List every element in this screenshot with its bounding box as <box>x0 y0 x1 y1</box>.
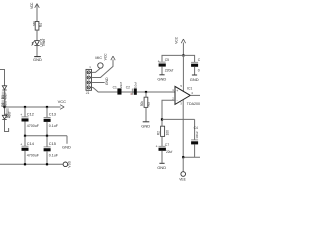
svg-text:+: + <box>176 89 178 93</box>
wire top rail <box>162 55 195 62</box>
junction dot signal line <box>145 91 147 93</box>
svg-text:VCC: VCC <box>104 53 108 61</box>
wire feedback to C4 <box>194 119 196 139</box>
capacitor C15 <box>44 146 51 148</box>
junction dot top rail <box>182 54 184 56</box>
svg-text:GND: GND <box>62 145 71 150</box>
svg-text:C7: C7 <box>165 143 169 147</box>
svg-text:4700uF: 4700uF <box>27 154 40 158</box>
svg-text:C13: C13 <box>49 111 56 116</box>
svg-text:+: + <box>20 113 22 117</box>
wire C13 top <box>46 107 48 117</box>
svg-text:C12: C12 <box>27 111 34 116</box>
terminal VEE <box>181 172 186 177</box>
wire VCC to top rail <box>182 43 184 56</box>
capacitor C6 <box>191 61 198 63</box>
LED LED1 <box>32 41 40 46</box>
ground (LED chain) <box>34 56 41 58</box>
svg-text:VEE: VEE <box>179 178 186 182</box>
junction dot mid rail right <box>46 135 48 137</box>
wire C13 bottom <box>46 122 48 136</box>
junction dot C13 top <box>46 106 48 108</box>
capacitor C13 <box>44 117 51 119</box>
svg-text:C14: C14 <box>27 141 35 146</box>
wire C5 to GND <box>161 67 163 75</box>
wire VCC arrow to J1 pin2 <box>93 60 113 78</box>
diode D1 <box>2 86 6 90</box>
resistor R2 <box>161 126 165 136</box>
wire C7 to GND <box>161 151 163 163</box>
svg-text:C2: C2 <box>126 85 130 89</box>
wire C15 bottom <box>46 151 48 164</box>
svg-text:0.1uF: 0.1uF <box>49 124 59 128</box>
wire C6 to GND <box>194 67 196 75</box>
svg-text:330: 330 <box>32 21 36 26</box>
svg-text:C1: C1 <box>113 85 117 89</box>
svg-text:R3: R3 <box>147 102 151 106</box>
svg-text:MIC: MIC <box>95 56 102 60</box>
wire mid rail <box>25 135 67 137</box>
wire junction to R3 <box>145 92 147 97</box>
wire mic to J1 pin1 <box>93 68 101 72</box>
ground (R3) <box>143 121 150 123</box>
wire op-amp pin 3 (gnd) down <box>182 100 184 157</box>
VCC arrow (amp) <box>181 39 185 43</box>
svg-text:R4: R4 <box>39 23 43 27</box>
wire op-amp output pin 4 <box>190 94 200 96</box>
svg-text:100: 100 <box>165 130 169 136</box>
wire inverting input to feedback node <box>162 100 175 126</box>
wire C14 bottom <box>24 151 26 165</box>
wire C4 to bottom rail <box>194 144 196 157</box>
svg-text:4007: 4007 <box>7 111 11 118</box>
svg-text:5mm: 5mm <box>42 39 46 46</box>
wire bottom rail (amp) <box>183 156 200 158</box>
junction dot bottom rail (amp) <box>182 156 184 158</box>
VCC arrow (LED chain) <box>35 4 40 8</box>
svg-text:50k: 50k <box>140 101 144 107</box>
capacitor C1 <box>117 88 121 94</box>
junction dot C12 top <box>24 106 26 108</box>
wire to VEE terminal <box>182 157 184 172</box>
svg-text:C6: C6 <box>198 58 200 62</box>
svg-text:C5: C5 <box>165 58 169 62</box>
pin 1 <box>90 71 93 73</box>
svg-text:GND: GND <box>157 165 166 170</box>
wire VCC to R4 <box>36 4 38 21</box>
svg-text:GND: GND <box>157 77 166 82</box>
wire J1 pin4 to signal line <box>93 87 175 92</box>
wire C14 top <box>24 136 26 146</box>
resistor R3 (bias) <box>144 97 148 107</box>
wire from left edge into diode chain <box>0 70 5 86</box>
capacitor C2 <box>131 89 133 95</box>
op-amp IC1 <box>175 86 190 104</box>
svg-text:VCC: VCC <box>30 2 34 9</box>
wire J1 pin3 to GND <box>93 82 105 84</box>
svg-text:+: + <box>156 144 158 148</box>
svg-text:TDA2003: TDA2003 <box>187 102 200 106</box>
svg-text:J1: J1 <box>86 91 90 95</box>
svg-text:GND: GND <box>33 57 42 62</box>
junction dot mid rail left <box>24 135 26 137</box>
svg-text:GND: GND <box>141 123 150 128</box>
svg-text:VSS: VSS <box>68 160 72 167</box>
pin 2 <box>90 77 93 79</box>
resistor R4 <box>35 22 39 31</box>
wire C15 top <box>46 136 48 147</box>
svg-text:C15: C15 <box>49 141 56 146</box>
wire VCC rail <box>5 106 61 108</box>
VCC arrow (mic) <box>111 56 115 60</box>
wire R2 to C7 <box>161 136 163 146</box>
wire feedback horizontal <box>162 118 195 120</box>
microphone terminal <box>98 63 103 68</box>
svg-text:100uf: 100uf <box>195 131 199 138</box>
node VCC arrow (rail end) <box>60 105 64 110</box>
wire VCC to op-amp pin 5 <box>182 55 184 91</box>
wire D1 to junction <box>4 90 6 115</box>
svg-text:GND: GND <box>105 77 109 85</box>
wire R3 to GND <box>145 107 147 121</box>
junction dot bottom rail left <box>24 163 26 165</box>
ground (C7) <box>159 162 164 164</box>
wire D2 down corner stub <box>5 120 9 132</box>
svg-text:VCC: VCC <box>175 36 179 44</box>
svg-text:0.1uF: 0.1uF <box>49 154 59 158</box>
junction dot bottom rail right <box>46 163 48 165</box>
connector J1 <box>86 69 92 90</box>
terminal VSS <box>63 162 68 167</box>
ground (C6) <box>192 74 197 76</box>
ground (C5) <box>159 74 164 76</box>
wire mid rail to GND <box>66 136 68 144</box>
wire bottom rail <box>0 163 63 165</box>
diode D2 <box>2 115 6 119</box>
wire LED1 to GND <box>36 45 38 56</box>
pin 3 <box>90 82 93 84</box>
svg-text:220uf: 220uf <box>165 68 174 72</box>
pin 4 <box>90 86 93 88</box>
svg-text:22nf: 22nf <box>119 82 123 88</box>
wire R4 to LED1 <box>36 30 38 40</box>
svg-text:C4: C4 <box>194 126 198 130</box>
svg-text:GND: GND <box>190 77 199 82</box>
junction dot VCC rail <box>3 106 5 108</box>
svg-text:22uf: 22uf <box>166 150 172 154</box>
wire C12 top <box>24 107 26 117</box>
svg-text:R2: R2 <box>156 131 160 135</box>
wire C12 bottom <box>24 122 26 136</box>
svg-text:IC1: IC1 <box>187 86 192 90</box>
junction dot feedback node <box>161 118 163 120</box>
svg-text:+: + <box>158 60 160 64</box>
svg-text:4700uF: 4700uF <box>27 124 40 128</box>
svg-text:VCC: VCC <box>58 99 67 104</box>
svg-text:+: + <box>20 142 22 146</box>
svg-text:0.1: 0.1 <box>198 68 200 72</box>
svg-text:10uf: 10uf <box>133 82 137 88</box>
